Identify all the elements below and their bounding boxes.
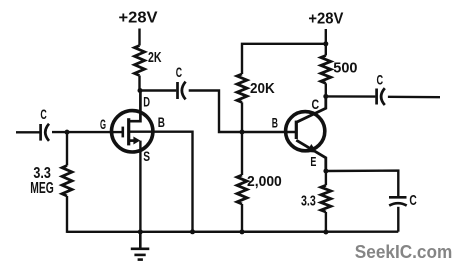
node at gate / 3.3 MEG junction dot [65,130,70,135]
svg-text:C: C [312,96,320,112]
Q2 emitter arrow [307,144,318,153]
svg-text:C: C [176,64,182,80]
node C junction dot [323,94,328,99]
wire: 2K to drain node [138,76,140,92]
wire: coupling capacitor to base node [189,91,242,133]
junction dot: 2,000 on rail [240,229,245,234]
label 2,000 [247,174,282,190]
node at +28V rail junction dot [323,41,328,46]
+28V supply label (stage 1) [119,10,158,27]
svg-text:G: G [100,116,106,132]
svg-text:S: S [143,149,150,164]
resistor 2,000 [237,175,247,204]
wire: top rail to 20K [242,44,326,74]
wire: drain node to coupling capacitor [140,89,176,91]
node E junction dot [323,169,328,174]
+28V supply label (stage 2) [308,11,343,28]
wire: 3.3 MEG to ground rail [66,196,68,233]
label 3.3 MEG [30,165,54,197]
label B (Q2 base) [272,116,278,131]
capacitor C output [377,88,385,105]
svg-text:C: C [40,106,46,122]
wire: emitter node down to 3.3 [325,171,327,185]
svg-text:500: 500 [333,60,357,77]
resistor 3.3 (emitter) [321,185,331,212]
label 3.3 (emitter resistor) [301,192,316,209]
wire: collector node to output capacitor [326,95,376,98]
svg-text:+28V: +28V [308,11,343,28]
Q1 gate bar [122,127,125,138]
node B junction dot [240,130,245,135]
svg-text:20K: 20K [250,80,275,97]
watermark SeekIC.com [355,242,453,262]
resistor 2K [135,46,145,76]
resistor 20K [237,74,247,102]
junction dot: B net on rail [190,229,195,234]
transistor Q1 FET body circle [112,111,153,152]
wire: rail dot to 500 and 500 to collector node [325,44,327,56]
label C (coupling capacitor) [176,64,182,80]
label 2K [148,50,162,66]
label 20K [250,80,275,97]
wire: base node down to 2,000 [241,132,243,175]
wire: +28V lead to 2K [138,29,140,46]
wire: output lead [388,96,440,99]
wire: node down to 3.3 MEG [66,132,68,165]
resistor 3.3 MEG [62,166,72,197]
node D junction dot [138,88,143,93]
wire: bypass capacitor to ground rail [397,207,399,232]
label E [310,154,316,169]
wire: input capacitor to gate [52,131,123,133]
wire: base node to Q2 base [242,131,296,133]
capacitor C input [41,124,49,141]
svg-text:C: C [409,193,417,209]
resistor 500 [321,56,331,84]
Q2 collector lead [296,96,326,122]
wire: 2,000 to ground rail [241,204,243,233]
svg-text:D: D [143,94,150,110]
svg-text:C: C [377,72,384,87]
Q1 bulk stub wire to B net [129,132,193,232]
label S [143,149,150,164]
Q1 drain stub [129,91,141,122]
label B (Q1 bulk) [158,114,165,130]
Q1 source arrow [129,137,141,145]
label C (output capacitor) [377,72,384,87]
label C (Q2 collector) [312,96,320,112]
wire: 3.3 to ground rail [325,212,327,233]
transistor Q2 BJT body circle [286,112,325,151]
svg-text:2,000: 2,000 [247,174,282,190]
label C (input capacitor) [40,106,46,122]
svg-text:E: E [310,154,316,169]
wire: emitter node to bypass capacitor [326,171,398,197]
junction dot: source on rail [138,229,143,234]
svg-text:2K: 2K [148,50,162,66]
label G [100,116,106,132]
junction dot: 3.3 on rail [323,230,328,235]
Q2 base bar [295,121,298,139]
svg-text:SeekIC.com: SeekIC.com [355,242,453,262]
wire: input lead [16,131,40,133]
label 500 [333,60,357,77]
ground [131,232,150,260]
label D [143,94,150,110]
Q1 source lead to ground rail [139,141,141,232]
Q1 channel bar [127,118,130,145]
label C (bypass capacitor) [409,193,417,209]
svg-text:B: B [272,116,278,131]
wire: 20K to base node [241,102,243,132]
svg-text:+28V: +28V [119,10,158,27]
svg-text:MEG: MEG [30,180,54,197]
svg-text:B: B [158,114,165,130]
wire: +28V lead (stage 2) [325,29,327,44]
svg-text:3.3: 3.3 [301,192,316,209]
wire: ground rail [67,230,398,233]
capacitor C bypass (emitter) [389,197,407,205]
capacitor C coupling (interstage) [178,82,186,100]
Q2 emitter lead [296,140,326,171]
